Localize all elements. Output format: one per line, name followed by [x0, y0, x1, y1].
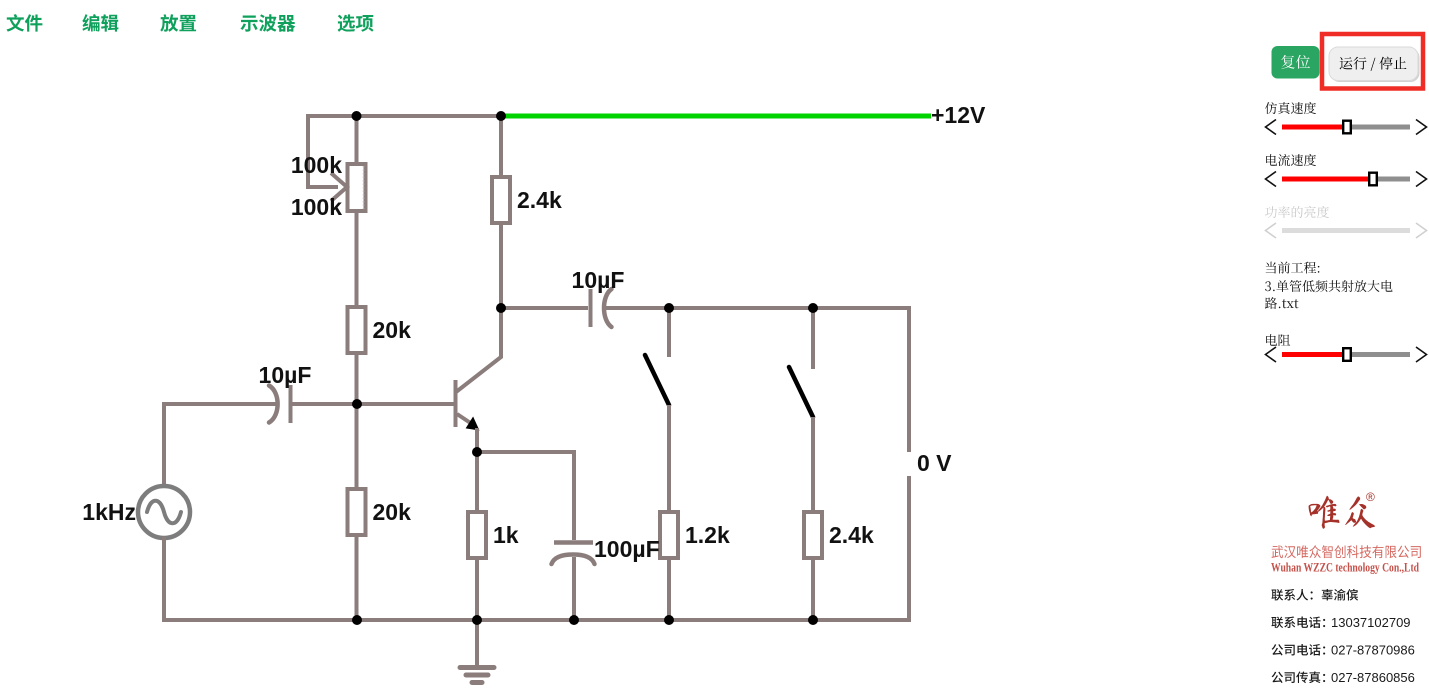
menu Scope — [240, 14, 295, 31]
node ground rail / R6 — [808, 615, 818, 625]
svg-text:10µF: 10µF — [259, 362, 312, 388]
switch S2 top stub — [811, 308, 815, 369]
node output rail / switch S2 — [808, 303, 818, 313]
slider current-speed right arrow — [1416, 172, 1427, 187]
transistor Q1 emitter arrow — [466, 417, 480, 431]
wire C2 to output rail — [604, 306, 911, 310]
wire right drop lower (to ground rail) — [907, 476, 911, 622]
transistor Q1 base bar — [454, 380, 458, 427]
wire C3 branch drop — [572, 450, 576, 540]
wire pot wiper arm — [306, 185, 338, 189]
wire base node to R3 — [355, 404, 359, 490]
svg-text:2.4k: 2.4k — [517, 187, 562, 213]
resistor R5 1.2k (load 1) — [660, 512, 678, 558]
resistor R4 2.4k (collector) — [492, 177, 510, 223]
svg-text:Wuhan WZZC technology Con.,Ltd: Wuhan WZZC technology Con.,Ltd — [1271, 560, 1420, 575]
capacitor C2 10uF straight plate — [589, 289, 593, 327]
capacitor C3 100uF straight plate — [554, 540, 593, 545]
wire pot top terminal — [355, 114, 359, 164]
wire pot wiper riser — [306, 114, 310, 187]
slider power-brightness track — [1282, 228, 1410, 233]
wire V+ to R4 — [499, 116, 503, 176]
company name 武汉唯众智创科技有限公司 — [1272, 545, 1421, 558]
svg-text:100µF: 100µF — [594, 536, 660, 562]
switch S1 top stub — [667, 308, 671, 357]
slider current-speed left arrow — [1266, 172, 1277, 187]
capacitor C3 100uF curved plate — [552, 555, 595, 565]
svg-text:2.4k: 2.4k — [829, 522, 874, 548]
wire input rail left — [162, 402, 277, 406]
slider resistance label — [1266, 334, 1290, 346]
svg-text:20k: 20k — [373, 499, 412, 525]
run/stop highlight red box — [1322, 34, 1423, 89]
potentiometer RP slider track (dotted) — [363, 166, 365, 209]
svg-text:027-87870986: 027-87870986 — [1331, 643, 1415, 658]
ground symbol bar 2 — [466, 673, 488, 678]
wire source bottom — [162, 537, 166, 622]
logo 唯众 — [1309, 496, 1375, 529]
potentiometer RP 100k body — [348, 164, 366, 211]
menu Options — [338, 14, 374, 32]
slider sim-speed label — [1265, 102, 1316, 114]
AC source V1 sine wave — [147, 501, 181, 524]
wire emitter node to R7 — [475, 452, 479, 512]
transistor Q1 collector lead — [456, 308, 501, 392]
wire output rail right drop (upper) — [907, 306, 911, 452]
node base — [352, 399, 362, 409]
menu Edit — [82, 14, 118, 32]
svg-text:100k: 100k — [291, 152, 342, 178]
ground symbol stem — [475, 620, 479, 667]
wire bottom-left riser — [162, 537, 166, 622]
contact line4 label — [1272, 671, 1326, 683]
svg-text:13037102709: 13037102709 — [1331, 615, 1411, 630]
menu File — [7, 14, 43, 32]
resistor R2 20k (upper bias) — [348, 307, 366, 353]
wire top rail V+ — [306, 114, 501, 118]
transistor Q1 emitter lead — [457, 414, 472, 424]
wire R6 to ground rail — [811, 558, 815, 620]
wire source top — [162, 404, 166, 487]
node ground rail / R3 — [352, 615, 362, 625]
node ground rail / C3 — [569, 615, 579, 625]
svg-text:+12V: +12V — [931, 102, 986, 128]
svg-text:027-87860856: 027-87860856 — [1331, 670, 1415, 685]
slider sim-speed right arrow — [1416, 120, 1427, 135]
menu Place — [160, 14, 196, 32]
reset button text 复位 — [1281, 55, 1310, 69]
wire emitter drop — [475, 428, 479, 454]
ground symbol bar 1 — [460, 665, 494, 670]
wire base — [357, 402, 454, 406]
node top-left junction — [352, 111, 362, 121]
contact line3 label — [1272, 644, 1326, 656]
slider resistance right arrow — [1416, 347, 1427, 362]
slider power-brightness left arrow — [1266, 223, 1277, 238]
slider current-speed label — [1266, 154, 1316, 166]
pot wiper arrowhead — [331, 173, 347, 201]
resistor R3 20k (lower bias) — [348, 489, 366, 535]
slider sim-speed handle — [1343, 121, 1351, 134]
svg-text:®: ® — [1366, 490, 1375, 504]
switch S1 blade — [645, 355, 669, 405]
capacitor C1 10uF straight plate — [289, 385, 293, 423]
slider sim-speed track — [1282, 125, 1347, 130]
node output rail / switch S1 — [664, 303, 674, 313]
slider power-brightness right arrow — [1416, 223, 1427, 238]
wire pot bottom to R2 — [355, 211, 359, 307]
slider power-brightness label — [1265, 206, 1329, 218]
capacitor C1 10uF curved plate — [269, 386, 278, 423]
slider resistance track — [1282, 352, 1347, 357]
switch S2 blade — [789, 367, 813, 417]
wire R3 bottom to ground rail — [355, 536, 359, 620]
switch S1 bottom wire — [667, 405, 671, 512]
contact line1 — [1271, 589, 1358, 601]
svg-text:10µF: 10µF — [572, 267, 625, 293]
slider current-speed handle — [1369, 173, 1377, 186]
slider sim-speed left arrow — [1266, 120, 1277, 135]
svg-text:1.2k: 1.2k — [685, 522, 730, 548]
switch S2 bottom wire — [811, 417, 815, 512]
wire emitter to C3 branch — [477, 450, 574, 454]
current project line3 — [1265, 297, 1299, 309]
wire R7 to ground rail — [475, 558, 479, 622]
run/stop button text 运行 / 停止 — [1340, 57, 1407, 71]
current project line2 — [1265, 280, 1393, 292]
node collector — [496, 303, 506, 313]
current project line1 — [1266, 262, 1320, 274]
svg-text:100k: 100k — [291, 194, 342, 220]
wire R4 bottom to collector node — [499, 224, 503, 308]
resistor R6 2.4k (load 2) — [804, 512, 822, 558]
svg-text:20k: 20k — [373, 317, 412, 343]
resistor R7 1k (emitter) — [468, 512, 486, 558]
slider current-speed track — [1282, 177, 1373, 182]
wire C3 to ground rail — [572, 557, 576, 620]
wire R2 bottom to base node — [355, 353, 359, 404]
node top-right junction (V+) — [496, 111, 506, 121]
slider resistance handle — [1343, 348, 1351, 361]
wire collector node to C2 — [501, 306, 588, 310]
wire C1 to base node — [292, 402, 357, 406]
reset button — [1272, 46, 1320, 79]
run/stop button — [1331, 49, 1420, 83]
ground symbol bar 3 — [472, 680, 482, 685]
node ground rail / R7 — [472, 615, 482, 625]
node emitter — [472, 447, 482, 457]
AC source V1 circle — [138, 486, 190, 538]
svg-text:0 V: 0 V — [917, 450, 952, 476]
svg-text:1kHz: 1kHz — [82, 499, 136, 525]
svg-text:1k: 1k — [493, 522, 519, 548]
node ground rail / R5 — [664, 615, 674, 625]
slider resistance left arrow — [1266, 347, 1277, 362]
contact line2 label — [1271, 617, 1325, 629]
wire ground rail — [162, 618, 911, 622]
capacitor C2 10uF curved plate — [604, 289, 612, 327]
wire +12V supply (green) — [503, 114, 931, 119]
wire R5 to ground rail — [667, 558, 671, 620]
